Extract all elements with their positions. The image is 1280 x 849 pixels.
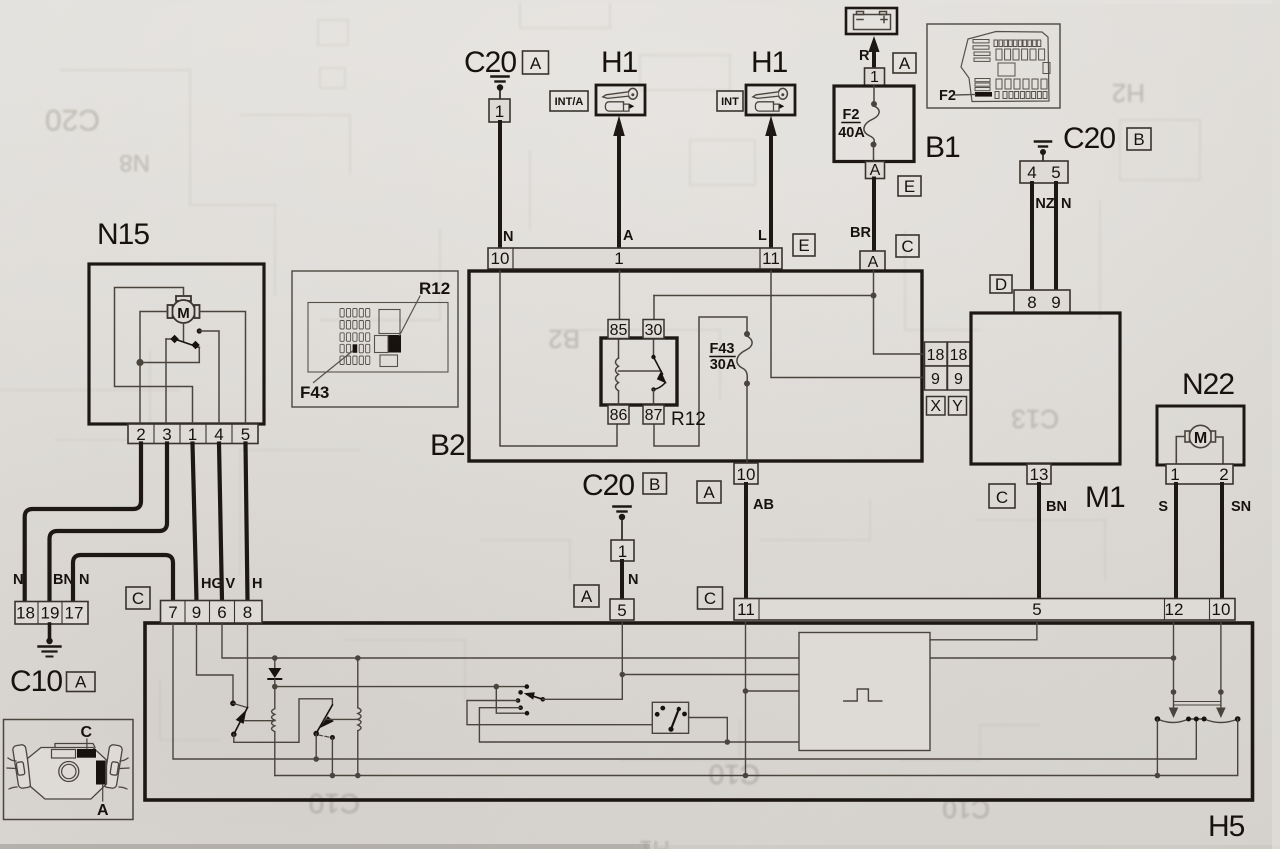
svg-text:C: C <box>901 237 913 256</box>
wire AB : B2 pin10 to strip pin11 <box>746 484 774 600</box>
svg-text:BR: BR <box>850 225 871 241</box>
svg-text:11: 11 <box>737 600 755 619</box>
wire: speed switch throw to bottom rail <box>330 738 336 779</box>
svg-text:2: 2 <box>136 425 145 444</box>
svg-text:10: 10 <box>491 249 510 268</box>
svg-text:R12: R12 <box>419 279 450 298</box>
wire: relay 87 to fuse F43 <box>654 317 747 446</box>
svg-text:R12: R12 <box>671 409 706 430</box>
wire: strip11 to pin 9 bridge <box>771 271 922 378</box>
motor M (N15) <box>168 296 200 323</box>
switch symbol H1 (left, INT/A) <box>550 46 645 115</box>
svg-text:N15: N15 <box>97 218 149 251</box>
connector C20 B (top right) <box>1063 122 1151 155</box>
pin 1 (B1 top) <box>865 68 885 86</box>
pulse generator box <box>799 633 930 751</box>
wire: park contact left leg <box>1155 719 1161 778</box>
svg-text:2: 2 <box>1219 465 1228 484</box>
svg-text:F2: F2 <box>843 107 860 123</box>
label A (N net mid) <box>574 585 599 607</box>
wire V : N15 pin4 to H5 pin6 <box>219 444 236 601</box>
svg-text:8: 8 <box>243 603 252 622</box>
svg-text:5: 5 <box>617 601 626 620</box>
svg-text:A: A <box>870 162 881 179</box>
svg-text:V: V <box>226 576 236 592</box>
svg-text:M1: M1 <box>1085 481 1125 514</box>
wire BR : B1 to B2 pin A <box>850 179 874 253</box>
wire N (C20B right) <box>1056 183 1071 291</box>
relay coil <box>616 340 662 404</box>
svg-text:10: 10 <box>1212 600 1231 619</box>
svg-text:BN: BN <box>53 572 74 588</box>
svg-text:1: 1 <box>495 102 504 121</box>
svg-text:N: N <box>13 572 23 588</box>
svg-text:R: R <box>859 48 870 64</box>
pin 10 (B2 bottom) <box>734 463 758 484</box>
bridge pin 9 (B2 side) <box>925 366 948 390</box>
svg-text:5: 5 <box>241 425 250 444</box>
label X <box>927 397 946 416</box>
label A (AB net) <box>697 481 721 503</box>
svg-text:19: 19 <box>41 604 60 623</box>
wire: pin12 to park contact <box>1169 620 1179 718</box>
pins 2/3/1/4/5 (N15) <box>128 424 258 444</box>
svg-text:A: A <box>868 254 879 271</box>
pin 86 <box>608 405 629 424</box>
wire: N15 motor right to pin 5 <box>200 312 246 425</box>
label C (left strip net) <box>126 587 150 609</box>
svg-text:5: 5 <box>1051 163 1060 182</box>
svg-text:INT/A: INT/A <box>555 96 584 108</box>
wire: pin8 to wash switch pivot <box>247 623 249 708</box>
svg-text:H: H <box>252 576 262 592</box>
wire: selector contact 3 to interval switch box <box>467 701 652 725</box>
svg-text:B1: B1 <box>925 131 960 164</box>
ground (C20 B top) <box>1035 142 1051 162</box>
pin 85 <box>608 320 629 340</box>
right stalk <box>103 744 129 789</box>
svg-text:87: 87 <box>645 407 663 424</box>
svg-text:11: 11 <box>762 249 780 268</box>
svg-text:3: 3 <box>162 425 171 444</box>
svg-text:13: 13 <box>1030 465 1049 484</box>
pin 5 (H5 small) <box>610 599 634 620</box>
svg-text:85: 85 <box>610 322 628 339</box>
wire BN : N15 pin3 to C10 pin19 <box>50 444 168 602</box>
svg-text:L: L <box>758 228 767 244</box>
wire: interval box to contact-4 rail <box>689 718 728 743</box>
svg-text:1: 1 <box>870 69 879 86</box>
wire: pin6 rail to pulse box and pin12 node <box>222 623 1176 661</box>
svg-text:10: 10 <box>737 465 756 484</box>
svg-text:C10: C10 <box>309 788 360 819</box>
svg-text:M: M <box>1194 430 1207 447</box>
label D <box>990 275 1012 294</box>
relay R12 <box>601 338 706 430</box>
pin 30 <box>643 320 664 340</box>
connector C10 label <box>10 665 95 698</box>
key icon H1 right <box>753 88 788 111</box>
terminal strip 11/5/12/10 (H5 top) <box>734 599 1235 621</box>
pin A (B1 bottom) <box>866 162 885 180</box>
svg-text:30A: 30A <box>710 357 737 373</box>
svg-text:A: A <box>623 228 634 244</box>
interval switch box <box>652 702 688 733</box>
svg-text:30: 30 <box>645 322 663 339</box>
svg-text:BN: BN <box>1046 499 1067 515</box>
connector C20 A (top left) <box>464 46 549 79</box>
svg-text:H1: H1 <box>751 46 788 79</box>
wire NZ <box>1032 183 1055 291</box>
svg-text:B2: B2 <box>548 324 580 354</box>
stalk switch unit H5 <box>145 623 1253 843</box>
connector C20 B (middle) <box>582 469 667 502</box>
label A (battery net) <box>893 53 916 73</box>
intermittence selector contacts <box>516 690 545 710</box>
svg-text:6: 6 <box>217 603 226 622</box>
park contact strip <box>1155 716 1241 722</box>
wire: wash switch to speed switch feed <box>234 699 333 743</box>
switch symbol H1 (right, INT) <box>717 46 795 115</box>
pin 87 <box>643 405 664 424</box>
svg-text:A: A <box>899 54 911 73</box>
motor control unit M1 <box>971 313 1125 514</box>
pin 1 (C20 B mid) <box>611 540 634 561</box>
svg-text:18: 18 <box>927 347 945 364</box>
label C (BN net) <box>989 484 1015 508</box>
switch (N15) <box>166 328 202 349</box>
page edge shading (decorative) <box>0 844 650 849</box>
bridge pin 18 (B2 side) <box>925 342 948 366</box>
ground (C10 pin 19) <box>39 624 61 657</box>
svg-text:40A: 40A <box>838 125 865 141</box>
svg-text:86: 86 <box>610 407 628 424</box>
wire: strip1 to relay 85 <box>619 271 621 339</box>
svg-text:AB: AB <box>753 497 774 513</box>
pins 1 2 (N22) <box>1166 464 1233 484</box>
svg-text:1: 1 <box>188 425 197 444</box>
relay contact 30-87 <box>651 340 666 404</box>
svg-text:7: 7 <box>168 603 177 622</box>
wire: N15 junction to blade tip, pin 3 riser <box>140 339 199 424</box>
fuse F2 40A <box>864 86 879 162</box>
bridge pin 9 (M1 side) <box>948 366 971 390</box>
C10 stalk unit illustration <box>4 720 134 820</box>
motor M (N22) <box>1176 425 1223 464</box>
F43 highlighted fuse <box>353 344 358 353</box>
fuse box B1 <box>834 86 960 164</box>
svg-text:X: X <box>930 398 941 415</box>
svg-text:F2: F2 <box>939 88 956 104</box>
strip C pins 7/9/6/8 (H5) <box>161 601 263 624</box>
svg-text:M: M <box>177 305 190 322</box>
svg-text:C20: C20 <box>45 103 100 136</box>
connector A (black) <box>96 761 106 785</box>
pin 13 (M1 bottom) <box>1027 464 1051 484</box>
F2 highlighted fuse <box>975 92 992 97</box>
svg-text:B: B <box>1133 130 1144 149</box>
svg-text:1: 1 <box>618 542 627 561</box>
wire: strip pin5 to pulse box <box>930 620 1037 640</box>
bridge pin 18 (M1 side) <box>948 342 971 366</box>
svg-text:A: A <box>75 673 87 692</box>
svg-text:9: 9 <box>1051 293 1060 312</box>
wire HG : N15 pin1 to H5 pin9 <box>193 444 223 601</box>
wire: N15 motor left to pin 2, junction <box>136 312 167 425</box>
wire: N15 motor top loop to pin 1 <box>115 288 193 425</box>
svg-text:N: N <box>79 572 89 588</box>
wire: N15 motor bottom stub <box>183 323 185 342</box>
washer pump N22 <box>1157 368 1244 465</box>
wire N : H5 pin7 to C10 pin17 <box>73 555 173 602</box>
svg-text:1: 1 <box>614 249 623 268</box>
pins 4 5 (C20 B) <box>1020 161 1068 183</box>
diode <box>268 658 281 689</box>
svg-text:A: A <box>97 802 109 819</box>
svg-text:A: A <box>703 483 715 502</box>
wire: pin A to pin 18 bridge, node at diode row <box>654 271 922 354</box>
svg-text:18: 18 <box>16 604 35 623</box>
svg-text:9: 9 <box>931 371 940 388</box>
svg-text:B2: B2 <box>430 429 465 462</box>
control unit B2 <box>430 271 922 462</box>
label C (BR net) <box>896 235 919 257</box>
wire: pin11 to pulse box and bottom rail <box>743 620 799 778</box>
svg-text:H1: H1 <box>601 46 638 79</box>
label E (strip) <box>793 234 815 256</box>
svg-text:1: 1 <box>1170 465 1179 484</box>
wash switch (left) <box>230 701 247 738</box>
wire: N15 pin2 to C10 pin18 <box>13 444 141 602</box>
svg-text:8: 8 <box>1027 293 1036 312</box>
battery <box>846 8 897 34</box>
svg-text:9: 9 <box>192 603 201 622</box>
wire S <box>1158 484 1176 600</box>
wire: diode rail to selector contacts <box>275 684 530 716</box>
svg-text:5: 5 <box>1032 600 1041 619</box>
terminal strip 10/1/11 (B2 top) <box>488 248 782 269</box>
pin 1 (C20 A) <box>489 99 510 122</box>
svg-text:C10: C10 <box>10 665 62 698</box>
wire: pin9 to switch contact <box>197 623 234 703</box>
svg-text:N8: N8 <box>119 149 150 176</box>
wire: park contact right leg + bottom rail <box>275 719 1238 776</box>
connector C10 strip 18/19/17 <box>15 602 88 625</box>
svg-text:A: A <box>581 587 593 606</box>
svg-text:C: C <box>132 589 144 608</box>
fuse F43 30A <box>710 331 753 463</box>
svg-text:C20: C20 <box>1063 122 1115 155</box>
pin A (B2 top) <box>860 251 885 271</box>
wire: pin10 to park contact <box>1216 620 1226 718</box>
svg-text:H5: H5 <box>1208 810 1245 843</box>
svg-text:4: 4 <box>214 425 223 444</box>
left stalk <box>7 744 32 789</box>
wire: strip10 to relay 86 <box>500 271 617 446</box>
svg-text:E: E <box>798 236 809 255</box>
wire A : arrow from strip pin1 up to H1 <box>613 116 634 251</box>
svg-text:9: 9 <box>954 371 963 388</box>
svg-text:Y: Y <box>952 398 963 415</box>
svg-text:NZ: NZ <box>1035 196 1054 212</box>
connector C (black) <box>77 749 96 758</box>
relay coil 1 (timer) <box>245 687 275 776</box>
svg-text:S: S <box>1158 499 1168 515</box>
wire: selector blade to pin5 node <box>543 623 799 699</box>
wire: N15 switch throw to pin 4 <box>199 331 219 424</box>
wire: pin7 long rail to park contact <box>173 623 1196 762</box>
svg-text:C20: C20 <box>464 46 516 79</box>
svg-text:N: N <box>628 572 638 588</box>
svg-text:N22: N22 <box>1182 368 1234 401</box>
relay/fuse location illustration (R12/F43) <box>292 271 458 407</box>
speed switch (middle) <box>313 699 334 740</box>
svg-text:C20: C20 <box>582 469 634 502</box>
wire N : C20A pin1 to strip pin10 <box>500 122 513 250</box>
wire SN <box>1222 484 1251 600</box>
wire BN : M1 pin13 to strip pin5 <box>1039 484 1067 600</box>
svg-text:C13: C13 <box>1011 404 1059 434</box>
svg-text:F43: F43 <box>710 341 735 357</box>
ground (C20 B mid) <box>614 507 631 541</box>
svg-text:B: B <box>649 475 660 494</box>
fusebox location illustration (F2) <box>927 24 1060 108</box>
R12 highlighted relay <box>389 335 402 353</box>
label C (H5 strip net) <box>698 587 723 609</box>
svg-text:F43: F43 <box>300 383 329 402</box>
label Y <box>949 397 967 416</box>
wire H : N15 pin5 to H5 pin8 <box>246 444 263 601</box>
pins 8 9 (M1 top) <box>1014 290 1070 313</box>
svg-text:N: N <box>503 229 513 245</box>
body <box>28 748 107 800</box>
svg-text:18: 18 <box>950 347 968 364</box>
relay coil 2 <box>325 658 361 778</box>
label E (B1) <box>898 176 921 196</box>
value label F2/40A <box>838 107 865 141</box>
svg-text:INT: INT <box>721 96 739 108</box>
mechanical link pin12-pin10 <box>1174 702 1221 706</box>
svg-text:12: 12 <box>1165 600 1184 619</box>
svg-text:C: C <box>704 589 716 608</box>
svg-text:N: N <box>1061 196 1071 212</box>
svg-text:4: 4 <box>1027 163 1036 182</box>
svg-text:E: E <box>904 177 915 196</box>
svg-text:17: 17 <box>65 604 84 623</box>
wire L : arrow from strip pin11 up to H1 <box>758 116 777 251</box>
svg-text:H2: H2 <box>1112 78 1145 108</box>
svg-text:SN: SN <box>1231 499 1251 515</box>
wire N (mid) <box>622 561 638 600</box>
wire: selector contact 4 to pulse box lower rail <box>479 708 798 745</box>
svg-text:D: D <box>995 275 1007 294</box>
pump assembly N15 <box>89 218 264 424</box>
wire: speed switch pivot to pin7 rail <box>315 734 317 759</box>
wire R : battery feed <box>859 36 880 68</box>
svg-text:A: A <box>530 54 542 73</box>
svg-text:C: C <box>996 488 1008 507</box>
key icon H1 left <box>603 88 638 111</box>
svg-text:C10: C10 <box>709 759 760 790</box>
ground (C20 A) <box>492 77 509 100</box>
